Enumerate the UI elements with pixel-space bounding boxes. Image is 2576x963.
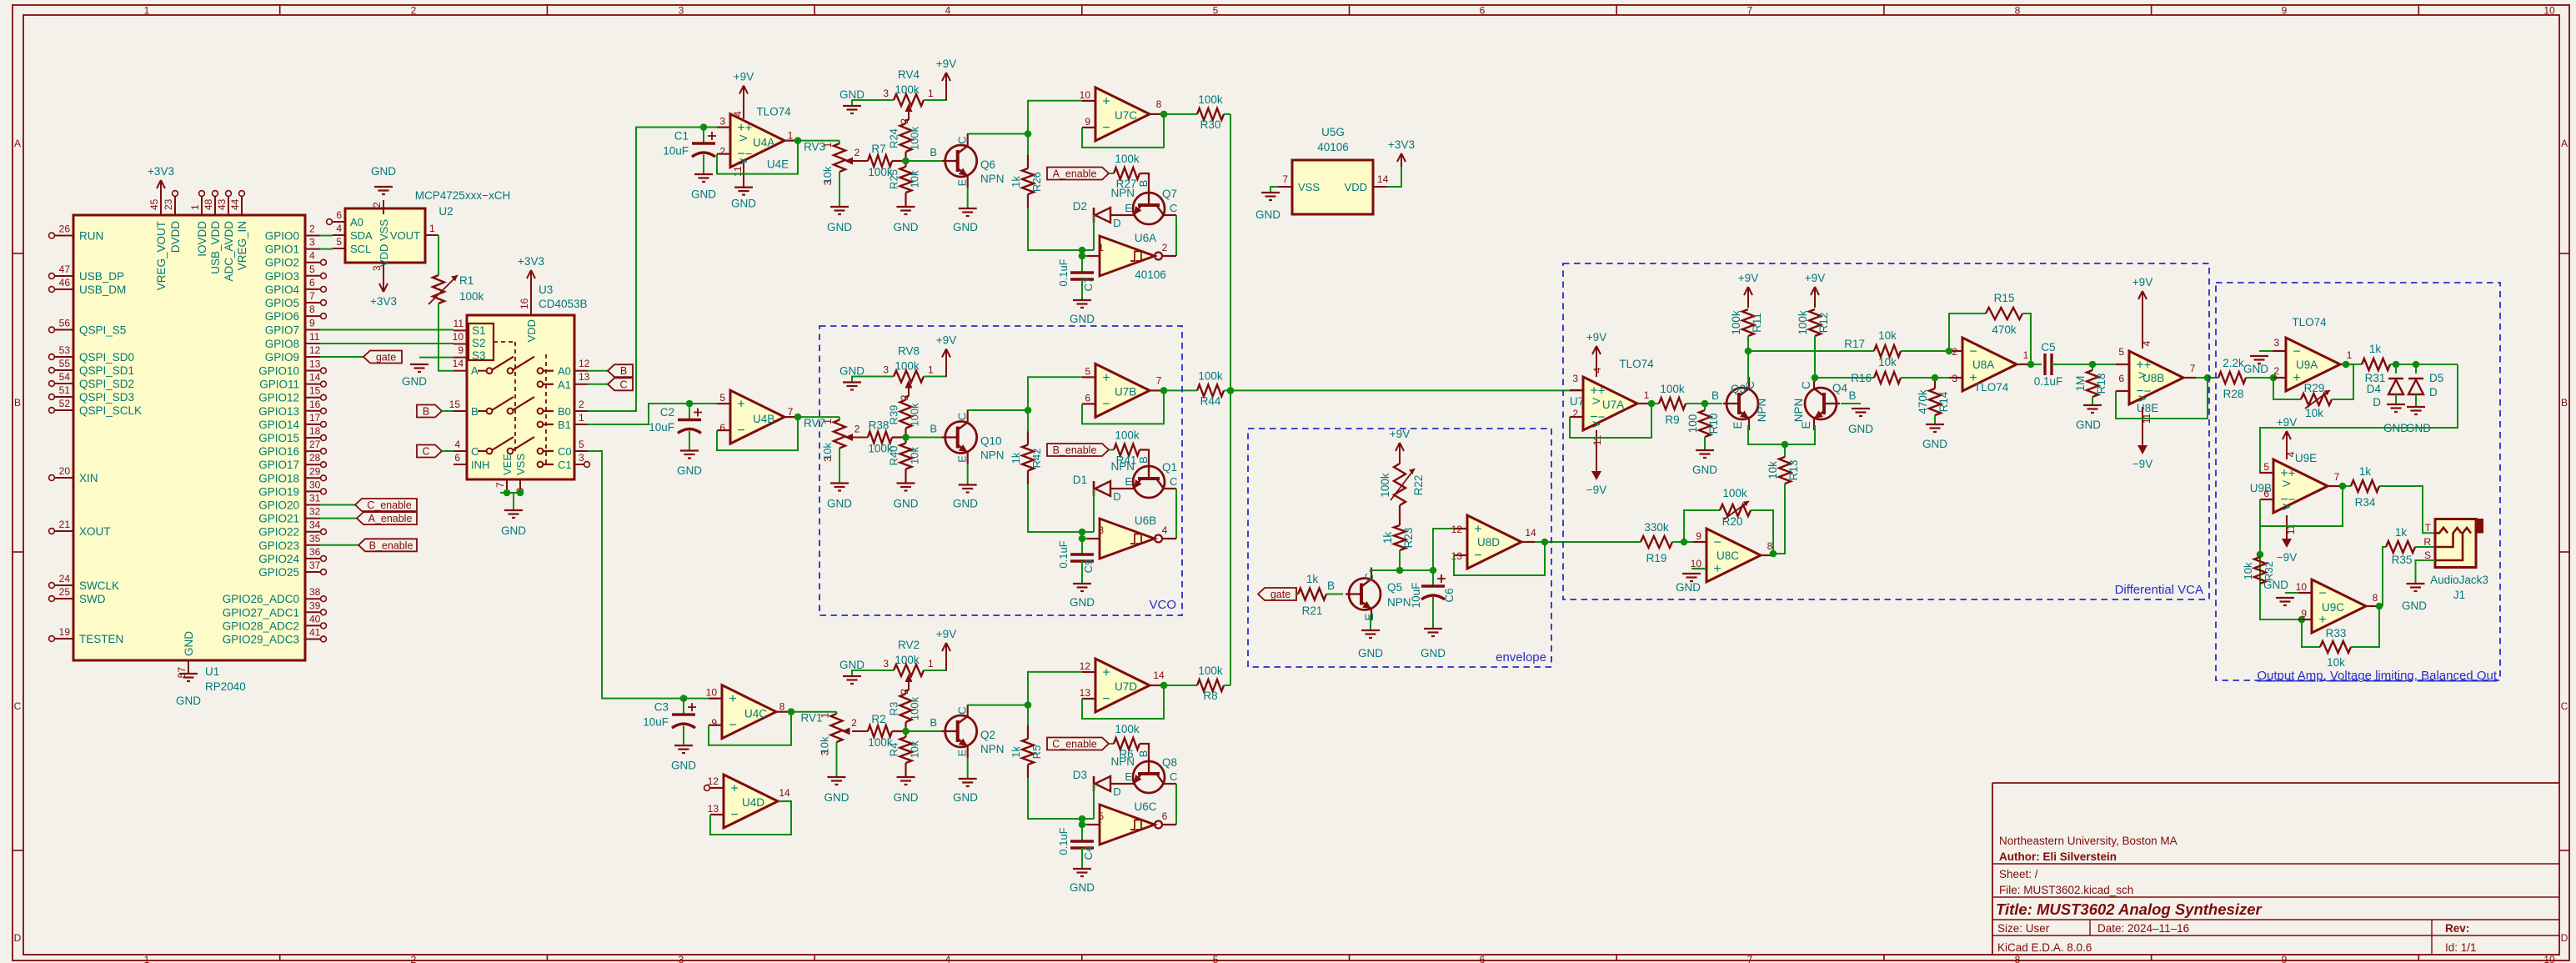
U3 pin 3 C1 unconnected [574,464,584,465]
dashed box envelope [1248,429,1551,667]
global label A_enable at GPIO21 [320,518,357,519]
svg-text:2: 2 [411,5,417,17]
svg-text:Id: 1/1: Id: 1/1 [2445,941,2477,954]
svg-text:+9V: +9V [1390,428,1410,440]
inverter U6A [1100,236,1155,276]
wire R1 to U3 pin A [439,303,454,371]
svg-text:100k: 100k [1198,665,1223,677]
wire U9C output [2380,605,2383,607]
svg-text:gate: gate [1270,589,1291,600]
U5G pin 14 VDD [1373,186,1387,188]
svg-text:30: 30 [309,479,321,490]
ground below R10 [1704,437,1706,450]
wire R20 to U8C output [1751,510,1773,554]
op-amp U4C [722,685,776,739]
svg-text:10k: 10k [909,447,921,464]
svg-text:2: 2 [899,118,910,124]
svg-text:Q7: Q7 [1162,188,1177,200]
resistor R6 100k [1109,743,1114,745]
wire R35 to jack ring [2415,546,2435,548]
svg-text:−: − [2293,345,2300,359]
svg-text:GPIO28_ADC2: GPIO28_ADC2 [223,619,299,632]
capacitor C4 0.1uF [1081,825,1083,841]
svg-text:26: 26 [59,223,71,235]
svg-text:GND: GND [691,188,716,201]
svg-text:GPIO23: GPIO23 [258,539,299,552]
global label B at U3 A0 [588,370,608,372]
wire R28 to U9A minus input [2246,377,2286,379]
transistor Q10 NPN [906,437,943,439]
svg-text:46: 46 [59,277,71,288]
svg-text:6: 6 [309,277,315,288]
svg-text:GPIO18: GPIO18 [258,472,299,484]
svg-text:100k: 100k [1660,383,1685,395]
svg-text:VOUT: VOUT [390,229,420,242]
wire U8D feedback [1454,542,1545,575]
svg-text:7: 7 [1747,954,1753,963]
svg-text:RV4: RV4 [898,68,920,81]
svg-text:B: B [2561,397,2568,409]
wire U9C output to R35 [2383,547,2386,606]
svg-text:+: + [2318,613,2326,627]
op-amp U9B V+ +9V [2286,444,2288,459]
svg-text:5: 5 [2263,461,2269,473]
svg-text:40106: 40106 [1135,268,1166,281]
svg-text:9: 9 [2282,5,2288,17]
svg-text:2: 2 [851,717,857,729]
svg-text:VCO: VCO [1149,598,1176,612]
svg-text:IOVDD: IOVDD [196,221,208,257]
U1 pin 24 SWCLK [55,584,73,586]
svg-text:GND: GND [839,365,865,378]
svg-text:NPN: NPN [1110,460,1135,473]
wire U7C feedback [1082,114,1164,148]
svg-text:C7: C7 [1082,278,1095,292]
svg-text:B: B [930,716,937,729]
svg-text:R13: R13 [1787,460,1800,481]
resistor R10 100 [1704,404,1706,410]
U2 pin 3 VDD [383,263,384,277]
svg-text:E: E [1125,475,1132,488]
U1 pin 5 GPIO3 [305,275,320,277]
svg-text:R17: R17 [1844,338,1865,350]
svg-text:VREG_VOUT: VREG_VOUT [155,221,168,290]
capacitor C6 10uF [1400,569,1433,571]
svg-text:10k: 10k [2305,407,2323,419]
svg-text:Size: User: Size: User [1997,922,2050,935]
svg-text:4: 4 [2141,340,2153,346]
wire GPIO1 to SCL [320,248,333,250]
U1 pin 8 GPIO6 [305,315,320,317]
svg-text:GND: GND [1692,464,1717,476]
U3 pin 10 S2 [454,344,467,345]
svg-text:2.2k: 2.2k [2223,357,2244,369]
svg-text:Author: Eli Silverstein: Author: Eli Silverstein [1999,850,2117,863]
svg-text:Output Amp, Voltage limiting,: Output Amp, Voltage limiting, Balanced O… [2257,669,2497,683]
svg-text:Q6: Q6 [980,158,995,171]
resistor R33 10k feedback [2302,619,2320,647]
svg-text:+: + [745,121,753,135]
svg-text:2: 2 [854,424,860,435]
ground below C9 [1073,583,1091,584]
wire Q5 collector to node [1371,570,1400,572]
svg-text:Q1: Q1 [1162,461,1177,474]
svg-text:GND: GND [1070,881,1095,894]
svg-text:V: V [738,135,749,142]
global label B_enable at GPIO23 [320,544,358,546]
svg-text:0.1uF: 0.1uF [1057,258,1070,286]
svg-text:NPN: NPN [1387,596,1411,609]
svg-text:5: 5 [2118,346,2124,358]
U1 pin 54 QSPI_SD2 [55,383,73,384]
U1 pin 28 GPIO17 [305,464,320,465]
U1 pin 38 GPIO26_ADC0 [305,598,320,599]
ground at U9C plus input [2285,592,2312,594]
svg-text:15: 15 [309,385,321,397]
svg-text:5: 5 [1098,810,1104,822]
svg-text:E: E [956,749,969,756]
U3 switch symbols [478,370,486,372]
capacitor C1 10uF [703,128,704,144]
svg-text:100k: 100k [1115,723,1140,735]
wire Q8 collector to inverter output [1175,783,1176,785]
svg-text:100k: 100k [1115,153,1140,165]
ground below R14 [1934,415,1936,424]
svg-text:B: B [930,423,937,435]
op-amp U7D [1095,659,1150,712]
svg-text:4: 4 [2285,451,2297,457]
svg-text:R2: R2 [871,713,885,725]
svg-text:39: 39 [309,599,321,611]
U3 pin 5 C0 [574,450,588,452]
svg-text:+: + [2280,467,2288,481]
U1 pin 20 XIN [55,477,73,479]
title block [1992,783,2559,955]
svg-text:NPN: NPN [1110,755,1135,768]
trimmer RV2 100k [894,665,924,676]
svg-text:+: + [1590,384,1597,399]
svg-text:GPIO5: GPIO5 [265,297,299,309]
svg-text:13: 13 [309,359,321,370]
svg-text:U2: U2 [439,205,453,218]
svg-text:1: 1 [144,954,150,963]
svg-text:2: 2 [579,399,584,410]
svg-text:9: 9 [1085,116,1090,128]
wire R30 output down the bus [1230,114,1231,390]
svg-text:D3: D3 [1073,769,1087,781]
power +9V right of RV8 [924,375,946,377]
svg-text:100k: 100k [909,126,921,150]
svg-text:Sheet: /: Sheet: / [1999,868,2038,880]
svg-text:35: 35 [309,533,321,544]
svg-text:21: 21 [59,519,71,530]
U1 pin 25 SWD [55,598,73,599]
svg-text:4: 4 [1162,524,1168,536]
ground below RV1 [836,742,838,777]
svg-text:1k: 1k [1381,532,1394,544]
wire R44 node to U7A input [1230,389,1583,391]
svg-text:−: − [1713,536,1721,550]
svg-text:R24: R24 [888,128,900,148]
svg-text:4: 4 [336,223,342,234]
svg-text:14: 14 [309,372,321,384]
svg-text:C: C [1170,475,1177,488]
global label B_enable [1047,444,1109,456]
svg-text:GND: GND [501,524,526,537]
resistor R8 100k [1197,680,1224,691]
svg-text:53: 53 [59,344,71,356]
svg-text:−: − [1474,549,1481,563]
global label C at U3 pin 4 [417,445,442,458]
op-amp U7C [1095,88,1150,141]
resistor R34 1k [2351,480,2379,492]
svg-text:V: V [1591,398,1602,404]
svg-text:23: 23 [163,198,174,210]
svg-text:2: 2 [1572,408,1578,419]
svg-text:RP2040: RP2040 [205,680,246,693]
svg-text:1: 1 [1644,389,1650,401]
svg-text:INH: INH [471,459,489,471]
svg-text:V: V [2281,480,2293,487]
svg-text:File: MUST3602.kicad_sch: File: MUST3602.kicad_sch [1999,884,2133,896]
diode D5 [2415,364,2417,374]
ground below RV3 [839,172,840,207]
svg-text:SWCLK: SWCLK [79,579,119,592]
U5G pin 7 VSS [1278,186,1292,188]
wire U3 B1 to oscillator row 2 [588,404,730,424]
svg-text:8: 8 [2015,5,2021,17]
global label gate envelope [1258,588,1296,600]
svg-text:GND: GND [827,221,852,233]
svg-text:4: 4 [1591,367,1603,373]
dashed box Output Amp [2216,283,2500,680]
svg-text:0.1uF: 0.1uF [2034,375,2063,388]
svg-text:−9V: −9V [2132,458,2153,470]
ground below D5 [2407,406,2425,408]
svg-text:GND: GND [1070,313,1095,325]
svg-text:11: 11 [732,166,744,177]
U2 pin 2 VSS [383,200,384,214]
svg-text:C: C [956,706,969,714]
resistor R9 100k [1659,398,1686,409]
svg-text:40106: 40106 [1317,141,1349,153]
ground at Q6 emitter [967,188,969,208]
U1 pin 45 VREG_VOUT [160,197,162,215]
svg-text:QSPI_S5: QSPI_S5 [79,324,126,337]
U2 pin 6 A0 [333,221,345,223]
svg-text:1: 1 [189,204,201,210]
svg-text:+9V: +9V [1586,331,1606,344]
svg-text:2: 2 [1952,346,1957,358]
svg-text:gate: gate [376,352,396,364]
svg-text:Rev:: Rev: [2445,922,2469,935]
resistor R2 100k [868,725,892,737]
svg-text:3: 3 [1952,373,1957,384]
svg-text:+9V: +9V [936,58,956,70]
ground below U3 [504,509,523,511]
svg-text:A0: A0 [558,365,571,378]
U1 pin 57 GND [188,660,189,674]
ground below C4 [1073,868,1091,870]
svg-text:10k: 10k [1878,356,1897,369]
svg-text:U6A: U6A [1135,232,1156,244]
ground below C7 [1073,299,1091,301]
svg-text:11: 11 [309,331,320,343]
U1 pin 18 GPIO15 [305,437,320,439]
svg-text:100k: 100k [1722,487,1747,499]
connector J1 AudioJack3 body [2468,519,2483,534]
svg-text:6: 6 [1480,954,1486,963]
svg-text:1: 1 [822,142,834,148]
svg-text:ADC_AVDD: ADC_AVDD [223,221,235,282]
svg-text:10k: 10k [1767,461,1779,479]
resistor R17 10k [1748,350,1874,352]
svg-text:R20: R20 [1722,515,1743,528]
svg-text:GPIO6: GPIO6 [265,310,299,323]
svg-text:GND: GND [824,791,849,804]
svg-text:GND: GND [953,221,978,233]
svg-text:8: 8 [2015,954,2021,963]
svg-text:R29: R29 [2304,382,2325,394]
U1 pin 7 GPIO5 [305,302,320,303]
svg-text:2: 2 [371,202,383,208]
ground at U3 S3 [419,357,454,359]
svg-text:−: − [729,719,736,733]
svg-text:7: 7 [309,290,315,302]
svg-text:GND: GND [953,791,978,804]
svg-text:RV2: RV2 [898,639,920,651]
svg-text:1: 1 [1098,242,1104,253]
svg-text:1: 1 [144,5,150,17]
svg-text:GND: GND [827,498,852,510]
diode D3 [1093,776,1095,791]
svg-text:B: B [14,397,21,409]
svg-text:3: 3 [309,237,315,248]
svg-text:+3V3: +3V3 [1388,138,1415,151]
inverter U6B [1100,519,1155,559]
svg-text:R1: R1 [459,274,474,287]
transistor Q1 NPN [1140,450,1149,475]
svg-text:V: V [738,158,749,165]
resistor R21 1k [1296,594,1298,595]
diode D2 [1093,208,1095,223]
svg-text:XOUT: XOUT [79,525,111,538]
ground at J1 sleeve [2416,560,2436,584]
op-amp U8B V- -9V [2142,407,2143,448]
svg-text:GPIO7: GPIO7 [265,324,299,337]
wire R31 to diodes [2390,364,2458,365]
svg-text:GPIO11: GPIO11 [259,379,299,391]
svg-text:C2: C2 [660,406,674,419]
svg-text:NPN: NPN [980,173,1005,185]
svg-text:Q10: Q10 [980,435,1002,448]
svg-text:+: + [1598,384,1606,399]
U3 pin 6 INH [454,464,467,465]
op-amp U7A [1583,377,1637,430]
svg-text:9: 9 [309,318,315,329]
svg-text:R39: R39 [888,405,900,425]
svg-text:R8: R8 [1203,690,1217,702]
U1 pin 35 GPIO23 [305,544,320,546]
svg-text:3: 3 [883,658,889,670]
global label C_enable [1047,738,1109,750]
dashed box VCO [819,326,1182,615]
wire C5 to U8B [2052,364,2129,365]
U1 pin 17 GPIO14 [305,424,320,425]
op-amp U7B [1095,364,1150,417]
svg-text:R15: R15 [1994,292,2015,304]
svg-text:+: + [2136,359,2143,373]
wire R44 to bus [1224,389,1230,391]
svg-text:3: 3 [819,750,831,755]
U3 pin 12 A0 [574,370,588,372]
resistor R4 10k [900,737,912,763]
svg-text:1k: 1k [1306,573,1319,585]
wire R34 to jack tip [2379,486,2435,533]
U1 pin 15 GPIO12 [305,397,320,399]
svg-text:R9: R9 [1665,414,1679,426]
svg-text:GND: GND [2402,599,2427,612]
op-amp U4A V+ pin 4 and +9V [743,88,744,119]
U1 pin 4 GPIO2 [305,262,320,263]
svg-text:D: D [1113,490,1120,503]
svg-text:1: 1 [2023,349,2029,361]
ground left of RV4 [852,100,894,106]
U3 S1 S2 S3 select box [469,324,494,360]
power +9V above R22 [1399,444,1401,464]
power +3V3 at U1 pin 45 [160,182,162,197]
svg-text:J1: J1 [2453,589,2465,601]
svg-text:A1: A1 [558,379,571,391]
svg-text:28: 28 [309,452,321,464]
wire Q10 collector to node [968,409,1028,412]
svg-text:V: V [2281,504,2293,510]
svg-text:11: 11 [1591,434,1603,445]
U1 pin 46 USB_DM [55,288,73,290]
U1 pin 51 QSPI_SD3 [55,396,73,398]
svg-text:+3V3: +3V3 [370,295,397,308]
wire U7A output [1651,403,1659,404]
svg-text:100k: 100k [1730,310,1742,335]
svg-text:B1: B1 [558,419,571,431]
svg-text:U1: U1 [205,665,219,678]
svg-text:R33: R33 [2326,627,2347,639]
svg-text:E: E [1125,770,1132,783]
U1 pin 43 ADC_AVDD [228,197,229,215]
op-amp U4D unused unit [724,775,778,828]
svg-text:1M: 1M [2074,376,2087,392]
resistor R3 100k [900,694,912,722]
svg-text:C3: C3 [654,701,669,714]
resistor R1 100k variable [438,257,439,275]
svg-text:CD4053B: CD4053B [539,298,588,310]
resistor R30 100k [1197,108,1224,120]
op-amp U9C [2312,579,2366,633]
wire U8D output to R19 [1535,541,1641,543]
resistor R26 1k [1022,168,1034,194]
svg-text:V: V [1591,421,1602,428]
svg-text:100k: 100k [1115,429,1140,442]
svg-text:GPIO17: GPIO17 [258,459,299,471]
svg-text:U8D: U8D [1477,536,1500,549]
svg-text:+: + [1474,523,1481,537]
ground at U9A plus input [2259,350,2286,352]
svg-text:TLO74: TLO74 [1619,358,1654,370]
U1 pin 29 GPIO18 [305,477,320,479]
svg-text:VREG_IN: VREG_IN [236,221,248,270]
svg-text:2: 2 [2273,365,2279,377]
resistor R23 1k [1394,525,1406,550]
